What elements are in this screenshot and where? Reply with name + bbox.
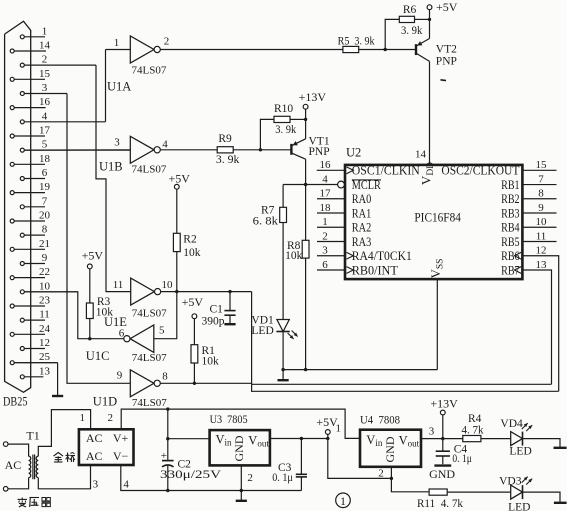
svg-text:U2: U2 <box>346 146 361 160</box>
svg-text:10k: 10k <box>285 250 303 262</box>
svg-text:AC: AC <box>5 458 22 472</box>
svg-text:R2: R2 <box>183 234 197 246</box>
svg-text:1: 1 <box>42 25 48 37</box>
svg-text:17: 17 <box>39 124 51 136</box>
svg-text:U1A: U1A <box>107 80 131 94</box>
svg-text:11: 11 <box>113 279 124 291</box>
svg-text:2: 2 <box>322 230 328 242</box>
svg-text:DB25: DB25 <box>3 395 28 409</box>
svg-text:330μ/25V: 330μ/25V <box>160 469 222 481</box>
svg-text:6: 6 <box>119 328 125 340</box>
svg-text:5: 5 <box>42 139 48 151</box>
svg-text:5: 5 <box>159 325 165 337</box>
svg-text:16: 16 <box>39 96 51 108</box>
svg-text:4: 4 <box>42 110 48 122</box>
svg-text:12: 12 <box>39 337 50 349</box>
svg-text:2: 2 <box>42 54 48 66</box>
svg-text:GND: GND <box>383 436 397 462</box>
svg-text:23: 23 <box>39 294 51 306</box>
svg-text:1: 1 <box>322 216 328 228</box>
svg-text:10: 10 <box>536 216 548 228</box>
svg-text:R10: R10 <box>274 103 293 115</box>
svg-text:13: 13 <box>536 259 548 271</box>
svg-text:LED: LED <box>251 325 273 337</box>
svg-text:20: 20 <box>39 209 51 221</box>
svg-text:74LS07: 74LS07 <box>132 397 167 409</box>
svg-text:RA1: RA1 <box>352 205 372 220</box>
svg-text:RB3: RB3 <box>501 205 520 220</box>
svg-text:0. 1μ: 0. 1μ <box>272 472 293 484</box>
svg-text:+5V: +5V <box>436 0 458 14</box>
svg-text:15: 15 <box>39 68 51 80</box>
svg-text:U1C: U1C <box>86 349 110 363</box>
svg-text:8: 8 <box>42 224 48 236</box>
svg-text:14: 14 <box>39 39 51 51</box>
svg-text:VD4: VD4 <box>500 418 523 430</box>
svg-text:R4: R4 <box>468 413 482 425</box>
svg-text:15: 15 <box>536 159 548 171</box>
svg-text:10: 10 <box>162 279 174 291</box>
svg-text:V−: V− <box>113 449 129 463</box>
svg-text:16: 16 <box>320 159 332 171</box>
svg-text:21: 21 <box>39 238 50 250</box>
svg-text:17: 17 <box>320 188 332 200</box>
svg-text:1: 1 <box>340 494 346 508</box>
svg-text:25: 25 <box>39 351 51 363</box>
svg-text:2: 2 <box>378 467 384 479</box>
svg-text:18: 18 <box>39 153 51 165</box>
svg-text:8: 8 <box>538 188 544 200</box>
svg-text:12: 12 <box>536 245 547 257</box>
svg-text:74LS07: 74LS07 <box>132 164 167 176</box>
svg-text:3: 3 <box>114 137 120 149</box>
svg-text:+5V: +5V <box>82 249 104 263</box>
svg-text:3: 3 <box>322 245 328 257</box>
svg-text:1: 1 <box>79 412 85 424</box>
svg-text:RB1: RB1 <box>501 177 520 192</box>
svg-text:74LS07: 74LS07 <box>132 352 167 364</box>
svg-text:AC: AC <box>86 431 103 445</box>
svg-text:4. 7k: 4. 7k <box>462 424 484 436</box>
svg-text:RA0: RA0 <box>352 191 372 206</box>
svg-text:RA2: RA2 <box>352 220 372 235</box>
svg-text:RB0/INT: RB0/INT <box>352 262 398 277</box>
svg-text:MCLR: MCLR <box>352 177 381 192</box>
svg-text:R9: R9 <box>218 133 232 145</box>
svg-text:10k: 10k <box>202 355 220 367</box>
svg-text:RB2: RB2 <box>501 191 520 206</box>
svg-text:0. 1μ: 0. 1μ <box>452 453 472 465</box>
svg-text:2: 2 <box>164 36 170 48</box>
svg-text:9: 9 <box>117 370 123 382</box>
svg-text:22: 22 <box>39 266 50 278</box>
svg-text:74LS07: 74LS07 <box>132 308 167 320</box>
svg-text:RB6: RB6 <box>501 248 520 263</box>
svg-text:10k: 10k <box>183 247 201 259</box>
svg-text:74LS07: 74LS07 <box>132 65 167 77</box>
svg-text:11: 11 <box>536 230 547 242</box>
svg-text:PIC16F84: PIC16F84 <box>414 210 461 225</box>
svg-text:RB5: RB5 <box>501 234 520 249</box>
svg-text:13: 13 <box>39 365 51 377</box>
svg-text:V+: V+ <box>113 431 129 445</box>
svg-text:19: 19 <box>39 181 51 193</box>
svg-text:AC: AC <box>86 449 103 463</box>
svg-text:24: 24 <box>39 323 51 335</box>
svg-text:GND: GND <box>232 435 246 461</box>
svg-text:U1D: U1D <box>93 395 117 409</box>
svg-text:3. 9k: 3. 9k <box>401 25 423 37</box>
svg-text:+13V: +13V <box>430 396 458 410</box>
svg-text:6: 6 <box>42 167 48 179</box>
svg-text:3: 3 <box>93 478 99 490</box>
svg-text:LED: LED <box>508 502 530 511</box>
svg-text:6. 8k: 6. 8k <box>253 215 279 227</box>
svg-text:+5V: +5V <box>182 295 204 309</box>
svg-text:2: 2 <box>107 412 113 424</box>
svg-text:U1B: U1B <box>99 160 123 174</box>
svg-text:U4 7808: U4 7808 <box>360 413 400 427</box>
svg-text:3. 9k: 3. 9k <box>216 154 240 166</box>
svg-text:T1: T1 <box>26 429 39 443</box>
svg-text:6: 6 <box>322 259 328 271</box>
svg-text:11: 11 <box>39 309 50 321</box>
svg-text:C1: C1 <box>210 304 224 316</box>
svg-text:PNP: PNP <box>436 55 457 67</box>
svg-text:1: 1 <box>114 37 120 49</box>
svg-text:RA3: RA3 <box>352 234 372 249</box>
svg-text:VT2: VT2 <box>436 44 457 56</box>
svg-text:R11 4. 7k: R11 4. 7k <box>417 498 463 510</box>
svg-text:10k: 10k <box>96 307 114 319</box>
svg-text:R6: R6 <box>403 4 417 16</box>
svg-text:10: 10 <box>39 280 51 292</box>
svg-text:4: 4 <box>162 138 168 150</box>
svg-text:PNP: PNP <box>309 146 330 158</box>
svg-text:+5V: +5V <box>316 415 338 429</box>
svg-text:7: 7 <box>42 195 48 207</box>
svg-text:U3 7805: U3 7805 <box>210 412 248 426</box>
svg-text:3: 3 <box>42 82 48 94</box>
svg-text:LED: LED <box>509 445 531 457</box>
svg-text:4: 4 <box>322 173 328 185</box>
svg-text:OSC1/CLKIN: OSC1/CLKIN <box>352 163 421 178</box>
svg-text:14: 14 <box>415 149 427 161</box>
svg-text:+5V: +5V <box>169 171 191 185</box>
svg-text:390p: 390p <box>202 315 225 327</box>
svg-text:+13V: +13V <box>299 90 327 104</box>
svg-text:RB7: RB7 <box>501 262 520 277</box>
svg-text:RA4/T0CK1: RA4/T0CK1 <box>352 248 412 263</box>
svg-text:2: 2 <box>247 472 253 484</box>
svg-text:RB4: RB4 <box>501 220 520 235</box>
svg-text:3: 3 <box>429 425 435 437</box>
svg-text:OSC2/CLKOUT: OSC2/CLKOUT <box>441 163 519 178</box>
svg-text:7: 7 <box>538 173 544 185</box>
svg-text:R5 3. 9k: R5 3. 9k <box>338 35 375 47</box>
svg-text:4: 4 <box>123 478 129 490</box>
svg-text:3. 9k: 3. 9k <box>275 124 296 136</box>
svg-text:9: 9 <box>538 202 544 214</box>
svg-text:8: 8 <box>162 371 168 383</box>
svg-text:18: 18 <box>320 202 332 214</box>
svg-text:GND: GND <box>429 467 455 481</box>
svg-text:9: 9 <box>42 252 48 264</box>
